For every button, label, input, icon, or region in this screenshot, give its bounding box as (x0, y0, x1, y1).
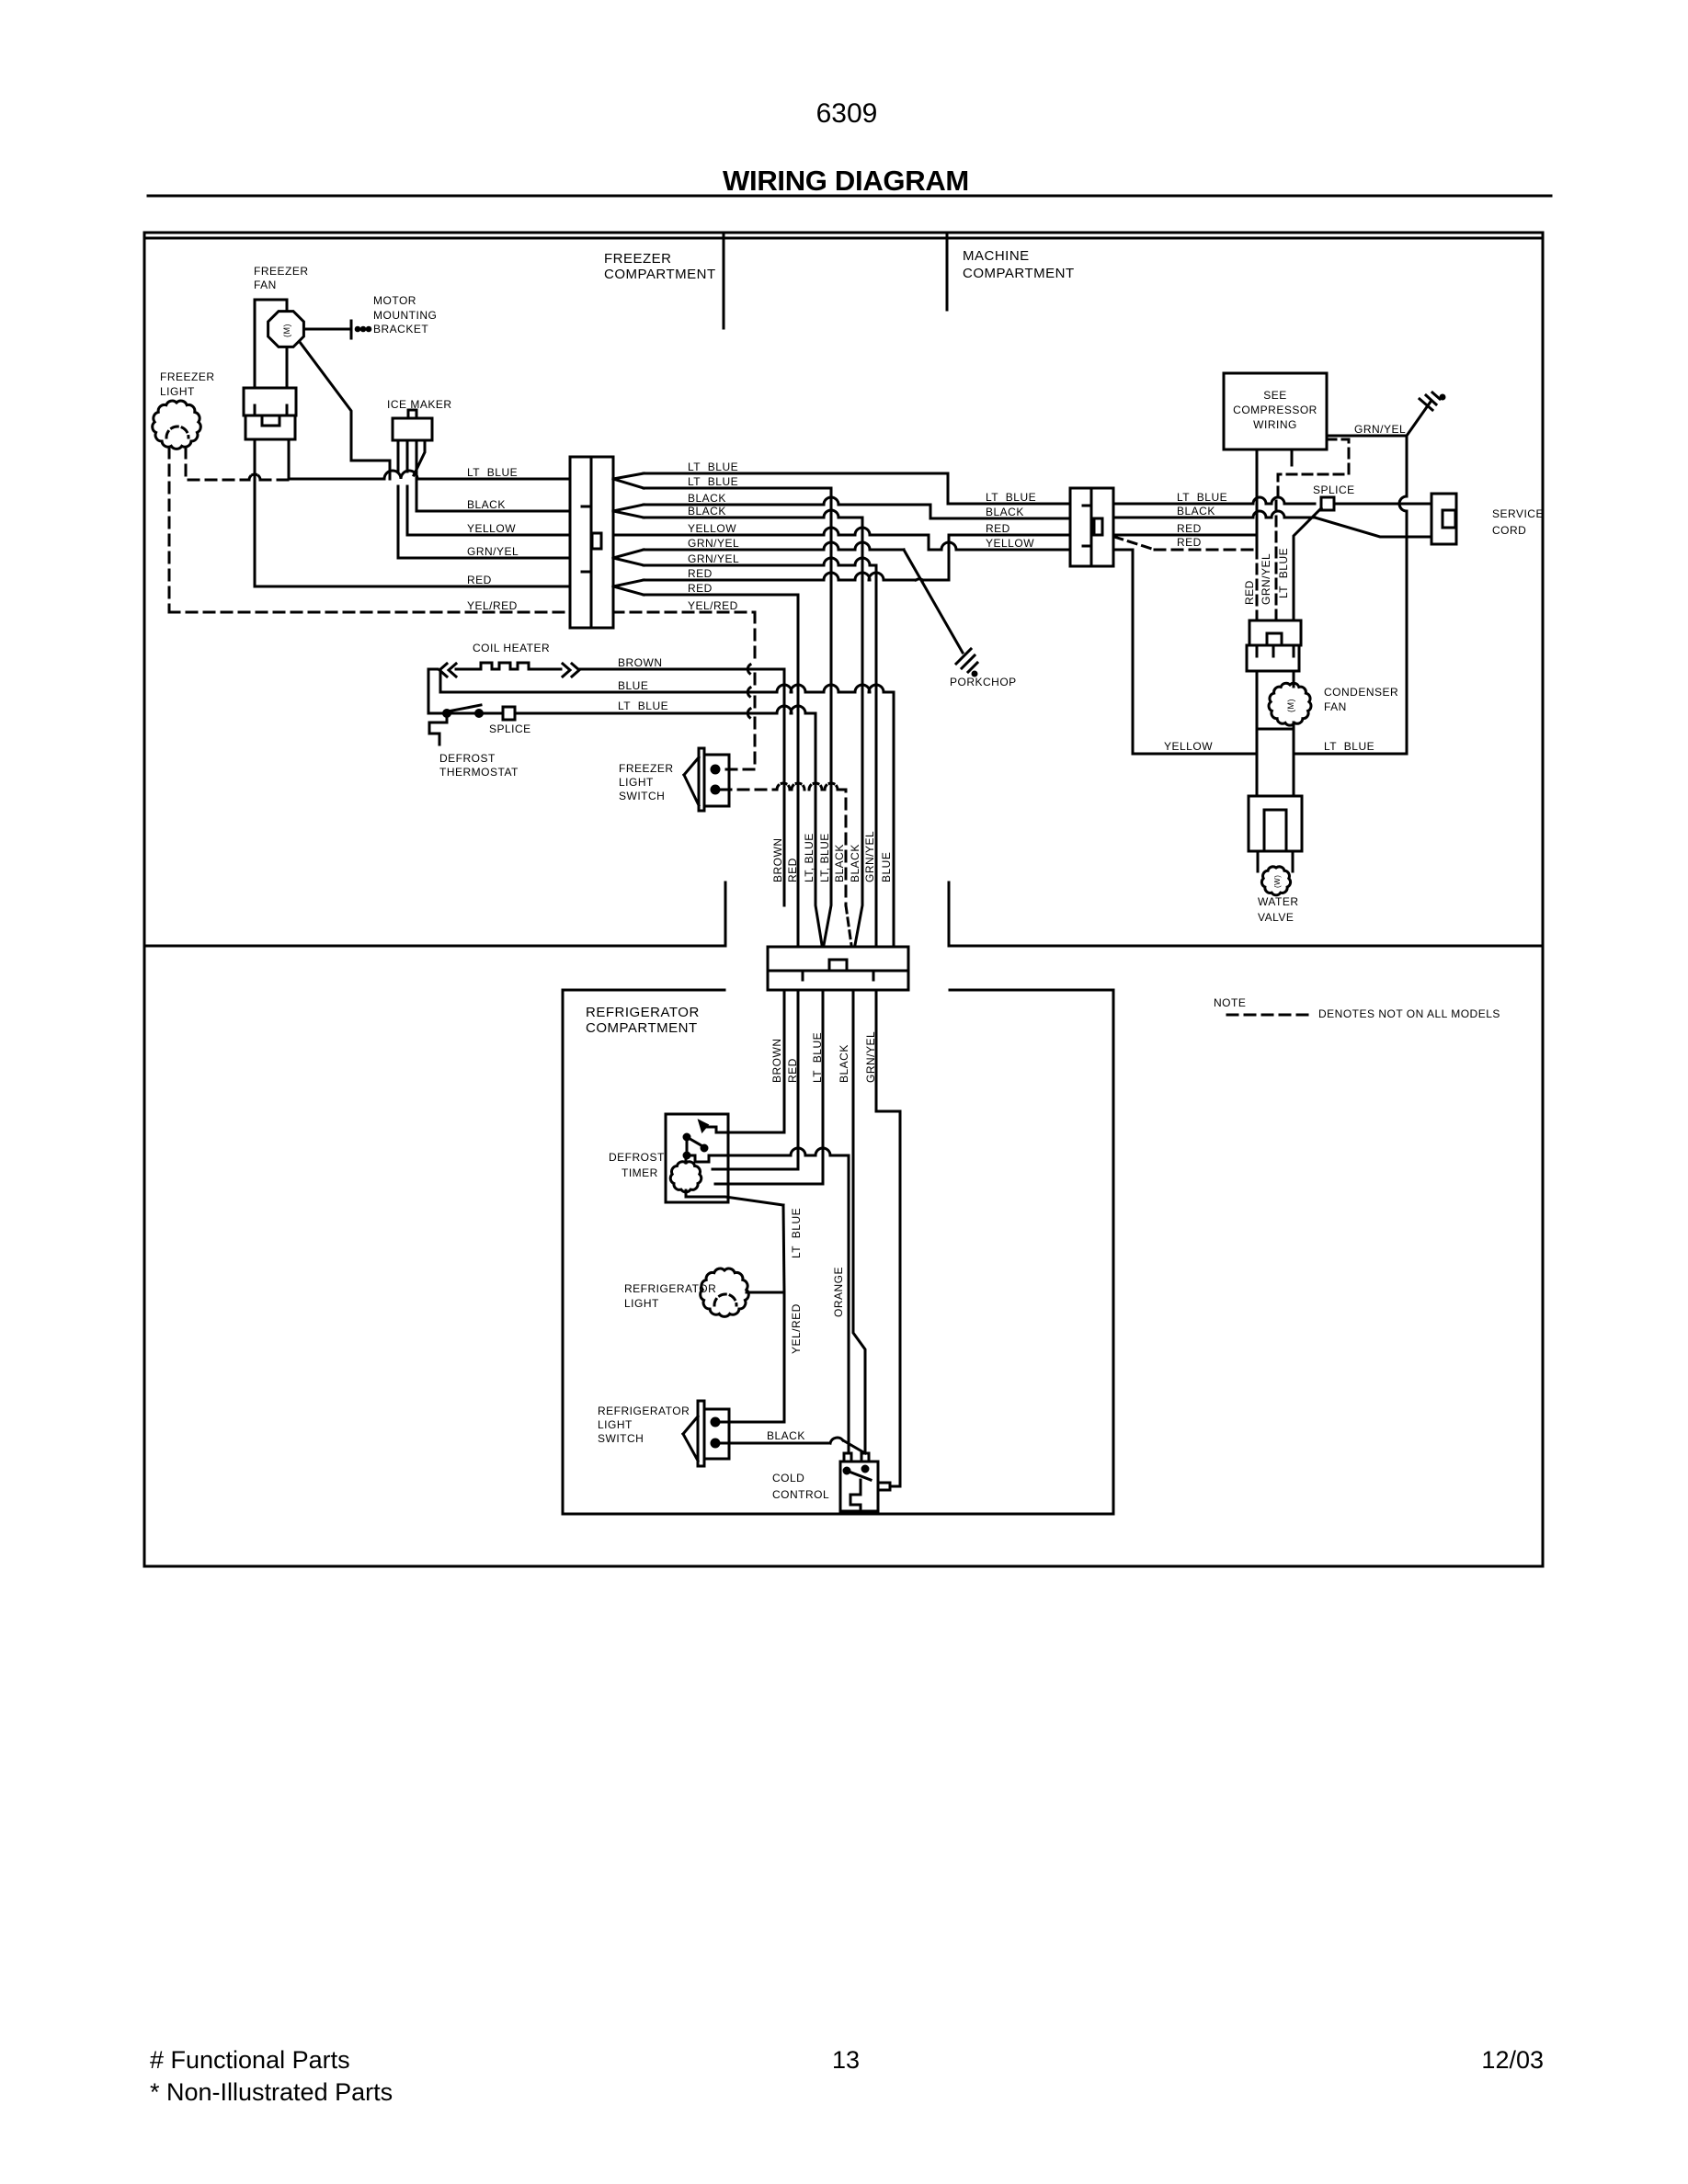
ground symbol hatch (1420, 392, 1444, 410)
water valve label (1258, 895, 1299, 924)
svg-text:WIRING: WIRING (1253, 418, 1297, 431)
label BLUE heater (618, 679, 648, 692)
svg-text:RED: RED (1177, 522, 1202, 535)
wire RED drop (797, 597, 800, 947)
svg-text:BLACK: BLACK (838, 1044, 850, 1083)
svg-text:* Non-Illustrated Parts: * Non-Illustrated Parts (150, 2078, 393, 2106)
label GRN/YEL bus 1 (688, 537, 739, 550)
svg-text:BROWN: BROWN (770, 1039, 783, 1084)
svg-text:SWITCH: SWITCH (598, 1432, 644, 1445)
svg-text:SPLICE: SPLICE (1313, 483, 1355, 496)
svg-text:YEL/RED: YEL/RED (688, 599, 738, 612)
svg-text:RED: RED (1243, 580, 1256, 605)
svg-text:REFRIGERATOR: REFRIGERATOR (586, 1005, 700, 1020)
wire LT BLUE heater drop (815, 713, 822, 945)
wire refrigerator light stub (747, 1291, 784, 1294)
label YELLOW freezer harness (467, 522, 516, 535)
wire YEL/RED dashed to switch (721, 612, 755, 769)
svg-text:LT BLUE: LT BLUE (467, 466, 518, 479)
motor mounting bracket label (373, 294, 437, 336)
freezer fan label (254, 265, 309, 291)
label LT BLUE heater (618, 700, 668, 712)
wire YEL/RED light to switch (721, 1292, 784, 1422)
label RED dashed (1177, 536, 1202, 549)
ground symbol diagonal (1407, 402, 1431, 436)
svg-text:BLACK: BLACK (688, 492, 726, 505)
label LT BLUE bus 2 (688, 475, 738, 488)
label YELLOW bus (688, 522, 736, 535)
freezer/machine compartment divider wall (723, 233, 725, 328)
note dashed sample line (1227, 1014, 1307, 1017)
center pass-through connector (768, 947, 908, 990)
svg-text:12/03: 12/03 (1481, 2046, 1544, 2074)
wire YELLOW freezer harness (407, 534, 570, 537)
cold control label (772, 1472, 829, 1501)
svg-text:SWITCH: SWITCH (619, 790, 665, 802)
svg-text:LIGHT: LIGHT (160, 385, 195, 398)
label LT BLUE freezer harness (467, 466, 518, 479)
label BLACK freezer harness (467, 498, 506, 511)
wire LT BLUE bus 2 (644, 487, 831, 490)
svg-text:WIRING DIAGRAM: WIRING DIAGRAM (723, 165, 969, 197)
label BROWN heater (618, 656, 663, 669)
svg-text:(W): (W) (1273, 875, 1282, 888)
label GRN/YEL ground (1354, 423, 1406, 436)
wire LT BLUE bus 1 (644, 473, 948, 504)
refrigerator compartment label (586, 1005, 700, 1036)
svg-text:GRN/YEL: GRN/YEL (467, 545, 519, 558)
mid divider right notch (948, 882, 951, 946)
svg-text:BLACK: BLACK (1177, 505, 1215, 518)
refrigerator light bulb (701, 1268, 749, 1316)
wire BLACK freezer harness (416, 510, 570, 513)
wire BLACK dashed from switch (721, 783, 846, 905)
svg-text:6309: 6309 (816, 98, 878, 129)
freezer light bulb (153, 401, 201, 449)
condenser fan label (1324, 686, 1398, 713)
wire RED bus 2 (644, 594, 798, 597)
wire YEL/RED dashed freezer harness (169, 611, 570, 614)
svg-text:LT BLUE: LT BLUE (618, 700, 668, 712)
freezer light label (160, 370, 215, 398)
svg-text:LIGHT: LIGHT (619, 776, 654, 789)
wire RED dashed alternate (1114, 537, 1257, 550)
wire split RED pair (613, 580, 644, 595)
water valve coil mark (1273, 875, 1282, 888)
svg-text:GRN/YEL: GRN/YEL (863, 831, 876, 882)
machine compartment label (963, 248, 1075, 281)
svg-text:LT BLUE: LT BLUE (688, 461, 738, 473)
wire freezer light dashed left (168, 448, 171, 612)
svg-text:GRN/YEL: GRN/YEL (1260, 553, 1272, 605)
svg-text:YELLOW: YELLOW (986, 537, 1034, 550)
svg-text:CONTROL: CONTROL (772, 1488, 829, 1501)
svg-text:THERMOSTAT: THERMOSTAT (439, 766, 519, 779)
svg-text:GRN/YEL: GRN/YEL (688, 552, 739, 565)
svg-text:DEFROST: DEFROST (609, 1151, 665, 1164)
wire compressor right pin stub (1291, 449, 1294, 465)
page number 6309 (816, 98, 878, 129)
svg-text:COMPARTMENT: COMPARTMENT (963, 266, 1075, 281)
svg-text:LT BLUE: LT BLUE (790, 1208, 803, 1258)
rotated labels relay (1243, 548, 1290, 605)
wire RED freezer harness (255, 586, 570, 588)
svg-text:BLACK: BLACK (688, 505, 726, 518)
label YEL/RED bus (688, 599, 738, 612)
svg-text:MACHINE: MACHINE (963, 248, 1030, 264)
wire GRN/YEL vertical service (1399, 436, 1407, 754)
label RED machine in (986, 522, 1010, 535)
wire BLACK bus2 drop (855, 518, 862, 945)
label RED bus 2 (688, 582, 713, 595)
footer page 13 (832, 2046, 860, 2074)
wire LT BLUE heater (428, 706, 815, 713)
freezer fan motor octagon (268, 312, 304, 347)
mid divider left notch (724, 882, 727, 946)
footer * Non-Illustrated Parts (150, 2078, 393, 2106)
svg-text:COIL HEATER: COIL HEATER (473, 642, 550, 654)
label RED machine out (1177, 522, 1202, 535)
note text (1318, 1007, 1500, 1020)
ice maker label (387, 398, 452, 411)
outer border box (144, 233, 1543, 1566)
label RED freezer harness (467, 574, 492, 586)
svg-text:BLUE: BLUE (618, 679, 648, 692)
wire YELLOW bus (613, 528, 929, 550)
freezer light switch label (619, 762, 674, 802)
wire ice maker pin3 BLACK (416, 440, 418, 511)
svg-text:COLD: COLD (772, 1472, 804, 1484)
svg-text:ORANGE: ORANGE (832, 1267, 845, 1317)
compressor box (1224, 373, 1327, 449)
wire GRN/YEL below connector (876, 990, 900, 1486)
freezer fan motor mark (282, 324, 291, 337)
splice label service (1313, 483, 1355, 496)
title WIRING DIAGRAM (723, 165, 969, 197)
svg-text:GRN/YEL: GRN/YEL (688, 537, 739, 550)
water valve coil (1261, 867, 1290, 895)
svg-text:SPLICE: SPLICE (489, 722, 531, 735)
water valve body (1249, 796, 1302, 851)
svg-text:FREEZER: FREEZER (160, 370, 215, 383)
svg-text:FAN: FAN (254, 279, 277, 291)
wire BLACK machine to service (1113, 511, 1431, 537)
porkchop label (950, 676, 1017, 688)
svg-text:LT BLUE: LT BLUE (688, 475, 738, 488)
freezer compartment label (604, 251, 716, 282)
wire heater left leg (428, 669, 430, 713)
svg-text:LT, BLUE: LT, BLUE (818, 833, 831, 882)
label YEL/RED freezer harness (467, 599, 518, 612)
mid divider right segment (949, 945, 1543, 948)
defrost timer label (609, 1151, 665, 1179)
svg-text:LT BLUE: LT BLUE (986, 491, 1036, 504)
rotated label ORANGE (832, 1267, 845, 1317)
wire BLUE drop (893, 693, 895, 947)
svg-text:LT BLUE: LT BLUE (1277, 548, 1290, 598)
wire ice maker pin2 YELLOW (406, 440, 409, 472)
svg-text:LT BLUE: LT BLUE (1177, 491, 1227, 504)
defrost timer motor (670, 1162, 701, 1192)
svg-text:RED: RED (688, 567, 713, 580)
wire GRN/YEL freezer harness (398, 557, 570, 560)
freezer fan plug connector (244, 388, 296, 439)
porkchop leader line (904, 550, 963, 653)
freezer fan motor lower stub (286, 348, 289, 388)
condenser fan duct (1257, 671, 1294, 729)
svg-text:TIMER: TIMER (622, 1166, 658, 1179)
freezer fan duct (255, 300, 287, 388)
wire BLACK bus 2 (644, 510, 862, 518)
wire ice maker pin1 drop (397, 486, 400, 558)
svg-text:RED: RED (786, 1058, 799, 1083)
label BLACK switch (767, 1429, 805, 1442)
svg-text:COMPARTMENT: COMPARTMENT (586, 1020, 698, 1036)
label GRN/YEL freezer harness (467, 545, 519, 558)
cold control body (840, 1453, 890, 1511)
wire freezer fan right pin down (288, 439, 291, 479)
svg-text:WATER: WATER (1258, 895, 1299, 908)
rotated label LT BLUE light (790, 1208, 803, 1258)
wire BLACK to machine connector (930, 518, 1070, 520)
wire GRN/YEL ground lead (1327, 435, 1407, 438)
svg-text:NOTE: NOTE (1214, 996, 1246, 1009)
condenser fan motor (1269, 683, 1311, 725)
wire BLUE heater (440, 685, 894, 692)
svg-text:# Functional Parts: # Functional Parts (150, 2046, 350, 2074)
label LT BLUE bus 1 (688, 461, 738, 473)
svg-text:DENOTES NOT ON ALL MODELS: DENOTES NOT ON ALL MODELS (1318, 1007, 1500, 1020)
wire split BLACK pair (613, 505, 644, 518)
wire GRN/YEL dashed compressor loop (1276, 439, 1349, 620)
svg-text:YEL/RED: YEL/RED (790, 1303, 803, 1354)
wire compressor left pin down (1256, 449, 1259, 620)
footer # Functional Parts (150, 2046, 350, 2074)
wire LT BLUE bus2 drop (824, 488, 831, 945)
defrost timer box (666, 1114, 728, 1202)
wire BLACK switch to cold control (721, 1438, 865, 1453)
svg-text:ICE MAKER: ICE MAKER (387, 398, 452, 411)
svg-text:RED: RED (986, 522, 1010, 535)
wire freezer light dashed right (186, 448, 289, 480)
machine compartment connector (1070, 488, 1113, 566)
title underline (148, 195, 1551, 198)
defrost timer motor lead (685, 1155, 688, 1163)
wire BROWN heater (778, 669, 784, 905)
splice label heater (489, 722, 531, 735)
svg-text:COMPRESSOR: COMPRESSOR (1233, 404, 1317, 416)
label BLACK machine out (1177, 505, 1215, 518)
refrigerator light switch body (683, 1401, 729, 1466)
refrigerator compartment box (563, 990, 1113, 1514)
svg-text:CONDENSER: CONDENSER (1324, 686, 1398, 699)
refrigerator light filament dashed (714, 1294, 736, 1305)
rotated wire labels below connector (770, 1031, 877, 1083)
label YELLOW machine in (986, 537, 1034, 550)
svg-text:(M): (M) (282, 324, 291, 337)
label BLACK bus 2 (688, 505, 726, 518)
condenser fan motor mark (1286, 699, 1295, 712)
svg-text:VALVE: VALVE (1258, 911, 1294, 924)
inner top border line (147, 237, 1543, 240)
machine compartment left wall (946, 233, 949, 310)
wire LT BLUE below connector (715, 990, 823, 1184)
label RED bus 1 (688, 567, 713, 580)
svg-text:GRN/YEL: GRN/YEL (1354, 423, 1406, 436)
wire ice maker pin4 LT BLUE (414, 440, 425, 475)
freezer light filament dashed (166, 427, 188, 438)
svg-text:REFRIGERATOR: REFRIGERATOR (598, 1405, 690, 1417)
defrost thermostat contacts (444, 705, 483, 717)
svg-text:CORD: CORD (1492, 524, 1526, 537)
wire YELLOW down to machine box (1113, 549, 1133, 552)
defrost timer orange jog (687, 1155, 728, 1162)
label GRN/YEL bus 2 (688, 552, 739, 565)
condenser fan lower stub (1293, 722, 1295, 729)
wire ice maker pin2 drop (406, 486, 409, 535)
svg-text:BLACK: BLACK (849, 844, 861, 882)
service cord connector (1431, 494, 1456, 544)
wire LT BLUE machine box (1294, 753, 1407, 756)
svg-text:GRN/YEL: GRN/YEL (864, 1031, 877, 1083)
svg-text:MOTOR: MOTOR (373, 294, 416, 307)
svg-text:BLACK: BLACK (833, 844, 846, 882)
mid divider left segment (144, 945, 725, 948)
svg-text:FREEZER: FREEZER (254, 265, 309, 278)
wire GRN/YEL cold control stub (890, 1485, 900, 1488)
svg-text:MOUNTING: MOUNTING (373, 309, 437, 322)
defrost thermostat label (439, 752, 519, 779)
rotated wire labels above connector (771, 831, 893, 882)
compressor box label (1233, 389, 1317, 431)
wire GRN/YEL bus 1 to porkchop (644, 542, 904, 550)
label LT BLUE machine in (986, 491, 1036, 504)
label YELLOW machine box (1164, 740, 1213, 753)
wire GRN/YEL bus 2 (644, 558, 876, 565)
svg-text:LIGHT: LIGHT (624, 1297, 659, 1310)
defrost timer cam contact (700, 1121, 728, 1132)
label LT BLUE machine out (1177, 491, 1227, 504)
svg-text:RED: RED (786, 858, 799, 882)
svg-text:BLACK: BLACK (767, 1429, 805, 1442)
svg-text:BLACK: BLACK (467, 498, 506, 511)
defrost timer bottom lead (686, 1190, 783, 1205)
wire BROWN below connector (728, 990, 784, 1132)
svg-text:DEFROST: DEFROST (439, 752, 496, 765)
svg-text:RED: RED (467, 574, 492, 586)
wire split LT BLUE pair (613, 473, 644, 488)
label BLACK machine in (986, 506, 1024, 518)
wire BLACK below connector (853, 990, 865, 1453)
svg-text:YELLOW: YELLOW (1164, 740, 1213, 753)
svg-text:FREEZER: FREEZER (619, 762, 674, 775)
freezer pass-through connector (570, 457, 613, 628)
wire fan motor diagonal to ice maker net (300, 342, 390, 479)
label BLACK bus 1 (688, 492, 726, 505)
defrost timer contacts (684, 1134, 707, 1158)
porkchop ground hatch (956, 649, 977, 676)
svg-text:RED: RED (688, 582, 713, 595)
note label (1214, 996, 1246, 1009)
label LT BLUE machine box (1324, 740, 1374, 753)
freezer light switch body (684, 748, 729, 811)
svg-text:YELLOW: YELLOW (467, 522, 516, 535)
wire RED bus 1 (644, 535, 949, 580)
wire LT BLUE to machine connector (950, 503, 1070, 506)
svg-text:BRACKET: BRACKET (373, 323, 428, 336)
svg-text:LT, BLUE: LT, BLUE (803, 833, 815, 882)
wire split GRN/YEL pair (613, 550, 644, 565)
wire freezer fan left pin down (254, 439, 257, 586)
wire YELLOW to machine connector (929, 542, 1070, 550)
wire BLACK dashed drop (846, 905, 851, 945)
svg-text:BLUE: BLUE (880, 852, 893, 882)
wire LT BLUE timer to light (783, 1205, 784, 1292)
svg-text:RED: RED (1177, 536, 1202, 549)
svg-text:LIGHT: LIGHT (598, 1418, 633, 1431)
water valve stubs (1258, 851, 1293, 871)
wire RED to machine connector (949, 534, 1070, 537)
wire GRN/YEL drop (875, 566, 878, 947)
svg-text:LT BLUE: LT BLUE (811, 1032, 824, 1083)
refrigerator light label (624, 1282, 716, 1310)
wire coil heater element (428, 663, 778, 677)
svg-text:SEE: SEE (1263, 389, 1287, 402)
rotated label YEL/RED light (790, 1303, 803, 1354)
svg-text:COMPARTMENT: COMPARTMENT (604, 267, 716, 282)
svg-text:FREEZER: FREEZER (604, 251, 672, 267)
wire LT BLUE splice to service cord (1334, 503, 1431, 506)
wire RED machine to compressor (1113, 535, 1257, 549)
svg-text:PORKCHOP: PORKCHOP (950, 676, 1017, 688)
compressor relay block (1247, 620, 1301, 671)
splice square heater (503, 707, 515, 720)
motor mounting bracket dots (356, 327, 371, 331)
wire YELLOW machine box (1133, 550, 1257, 754)
svg-text:LT BLUE: LT BLUE (1324, 740, 1374, 753)
svg-text:BLACK: BLACK (986, 506, 1024, 518)
defrost thermostat probe zigzag (429, 717, 447, 745)
svg-text:YELLOW: YELLOW (688, 522, 736, 535)
svg-text:(M): (M) (1286, 699, 1295, 712)
wire LT BLUE machine to splice (1113, 497, 1315, 504)
splice square service (1321, 497, 1334, 510)
motor mounting bracket lead (306, 328, 350, 331)
coil heater label (473, 642, 550, 654)
svg-text:13: 13 (832, 2046, 860, 2074)
wire LT BLUE relay diagonal (1294, 508, 1321, 620)
svg-text:YEL/RED: YEL/RED (467, 599, 518, 612)
footer date 12/03 (1481, 2046, 1544, 2074)
wire heater chevron leg (439, 671, 442, 692)
wire ice maker pin1 GRN/YEL (397, 440, 400, 472)
refrigerator light switch label (598, 1405, 690, 1445)
wire LT BLUE freezer harness (289, 471, 570, 479)
svg-text:BROWN: BROWN (618, 656, 663, 669)
wire ORANGE timer to cold control (728, 1148, 849, 1453)
wire water valve leads (1257, 729, 1294, 796)
motor mounting bracket bar (350, 321, 353, 338)
svg-text:FAN: FAN (1324, 700, 1347, 713)
service cord label (1492, 507, 1544, 537)
svg-text:SERVICE: SERVICE (1492, 507, 1544, 520)
svg-text:BROWN: BROWN (771, 838, 784, 883)
wire YEL/RED dashed bus (613, 611, 755, 614)
wire BLACK bus 1 (644, 497, 930, 518)
ice maker body (393, 410, 432, 440)
wire RED below connector (713, 990, 798, 1169)
